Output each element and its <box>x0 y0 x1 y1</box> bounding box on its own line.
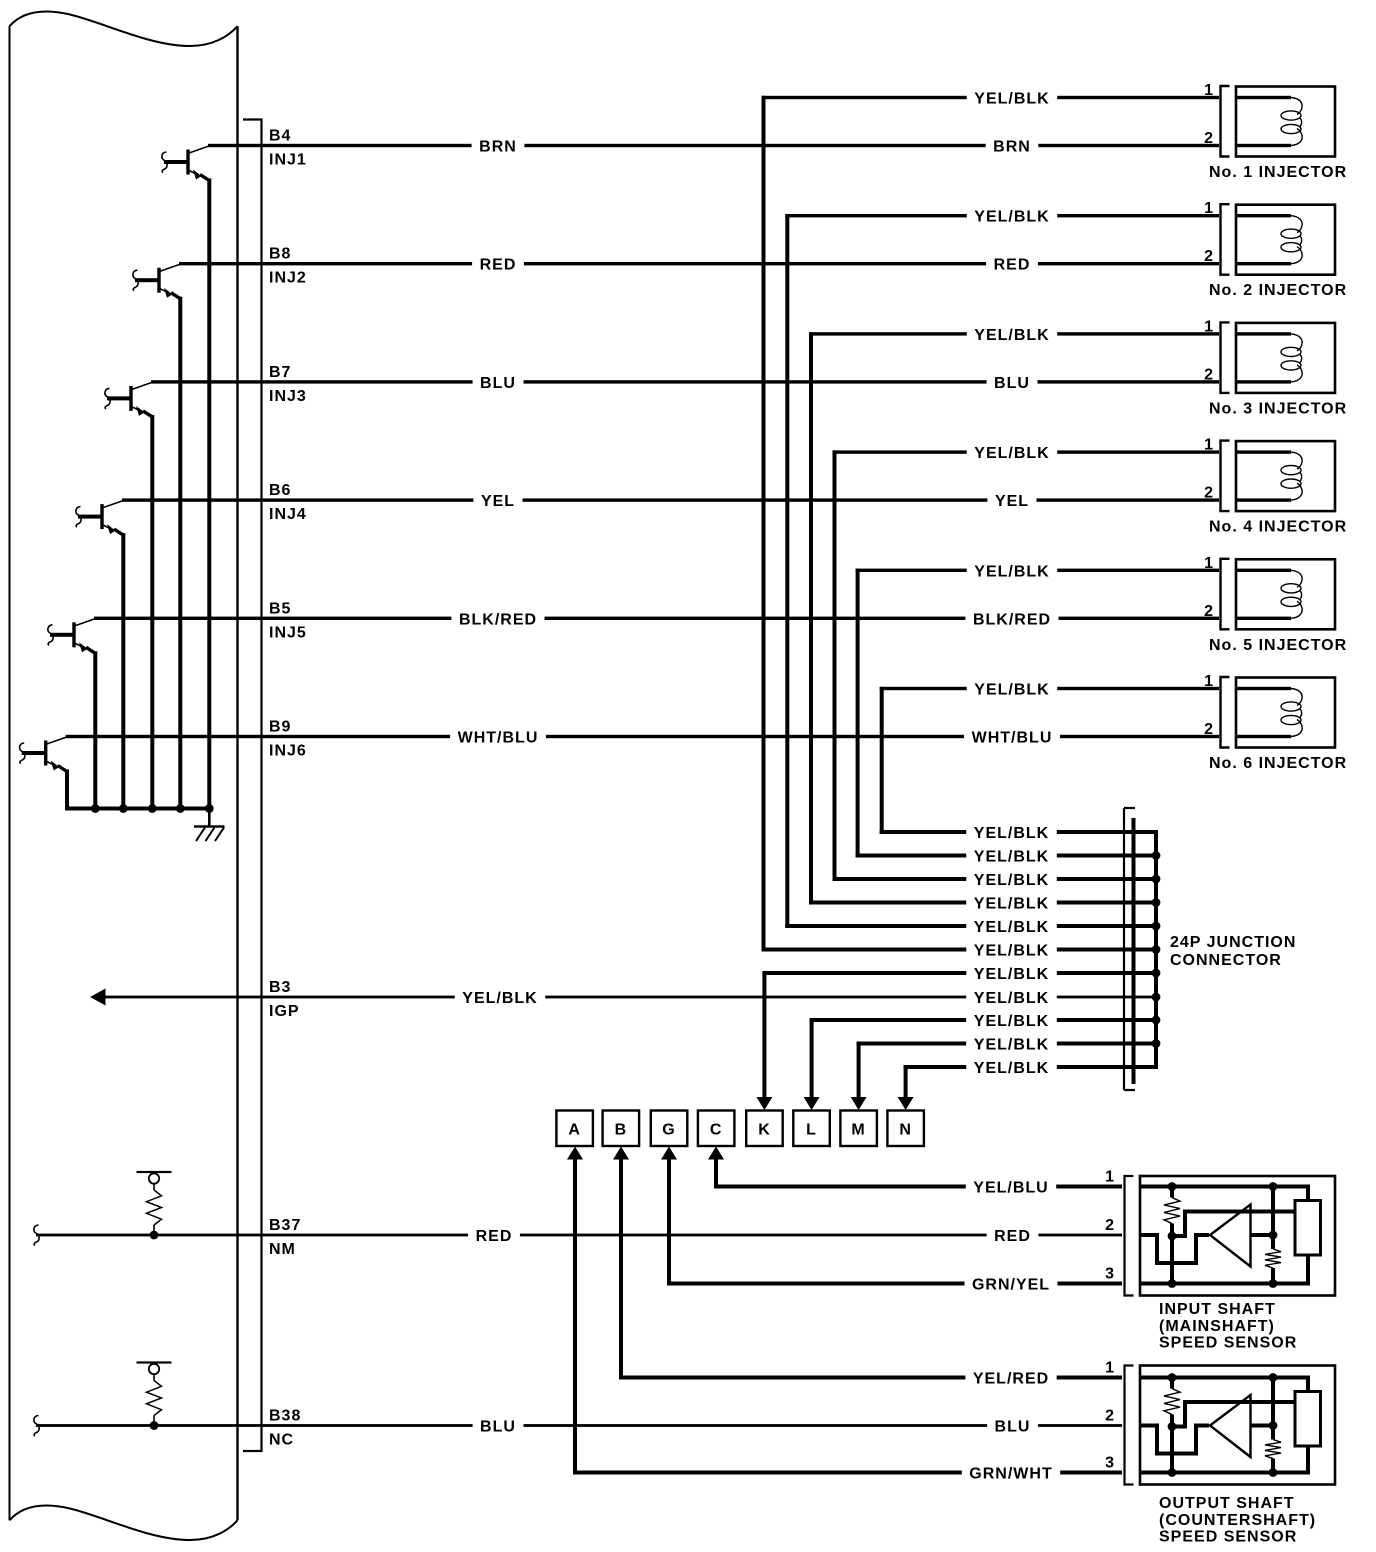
svg-text:M: M <box>851 1122 865 1139</box>
junction dot on 24P bus <box>1152 851 1161 860</box>
svg-text:B4: B4 <box>269 128 291 145</box>
wire BRN: ECM INJ1 to No.1 injector pin 2 <box>208 144 472 147</box>
svg-text:IGP: IGP <box>269 1003 300 1020</box>
left resistor branch <box>1170 1378 1174 1389</box>
wire break squiggle at Q1 base <box>162 152 167 173</box>
wire YEL/BLK: 24P junction connector row 5 <box>785 924 966 928</box>
junction dot on 24P bus <box>1152 922 1161 931</box>
pull-up resistor and supply at B37/NM <box>137 1171 172 1173</box>
sensing element resistor <box>1295 1201 1321 1256</box>
junction dot on 24P bus <box>1152 1039 1161 1048</box>
svg-text:RED: RED <box>476 1228 513 1245</box>
wire GRN/WHT: box A to output shaft speed sensor pin 3 <box>573 1471 962 1475</box>
injector coil box: No. 5 INJECTOR <box>1236 559 1335 629</box>
svg-text:1: 1 <box>1105 1360 1115 1377</box>
svg-text:YEL/BLK: YEL/BLK <box>974 919 1049 936</box>
svg-text:B3: B3 <box>269 979 291 996</box>
connector code box A <box>556 1111 593 1147</box>
connector code box M <box>840 1111 877 1147</box>
svg-text:L: L <box>806 1122 817 1139</box>
feedback wire over amp <box>1172 1212 1295 1237</box>
svg-text:WHT/BLU: WHT/BLU <box>458 730 539 747</box>
wire YEL/RED: box B to output shaft speed sensor pin 1 <box>619 1376 965 1380</box>
wire BLU: ECM B38 to output shaft speed sensor pin 2 <box>36 1424 473 1427</box>
wire YEL/BLK: 24P junction connector row 9 <box>810 1018 967 1022</box>
wire break squiggle at B37 wire left end <box>34 1225 39 1246</box>
right vertical to sensing element <box>1306 1378 1310 1392</box>
svg-text:YEL/BLK: YEL/BLK <box>974 896 1049 913</box>
feedback wire over amp <box>1172 1402 1295 1427</box>
svg-text:1: 1 <box>1204 555 1214 572</box>
svg-text:2: 2 <box>1204 603 1214 620</box>
transistor Q4 (injector driver INJ4) <box>78 515 102 519</box>
transistor Q2 (injector driver INJ2) <box>135 278 159 282</box>
connector bracket at No.4 injector <box>1221 441 1230 512</box>
svg-text:B8: B8 <box>269 246 291 263</box>
wire: vertical from injector 4 YEL/BLK down to junction row 3 <box>833 450 837 881</box>
svg-text:1: 1 <box>1204 437 1214 454</box>
junction dot at B37/NM <box>150 1231 159 1240</box>
junction dot on 24P bus <box>1152 898 1161 907</box>
svg-text:A: A <box>568 1122 581 1139</box>
junction dot on 24P bus <box>1152 1016 1161 1025</box>
svg-text:YEL: YEL <box>995 493 1029 510</box>
wire: vertical from injector 1 YEL/BLK down to junction row 6 <box>762 96 766 952</box>
svg-text:YEL/BLK: YEL/BLK <box>974 209 1049 226</box>
svg-text:OUTPUT SHAFT: OUTPUT SHAFT <box>1159 1495 1295 1512</box>
wire BLK/RED: ECM INJ5 to No.5 injector pin 2 <box>94 617 451 620</box>
svg-text:BLU: BLU <box>480 1419 516 1436</box>
svg-text:YEL/BLK: YEL/BLK <box>974 1037 1049 1054</box>
injector coil box: No. 6 INJECTOR <box>1236 678 1335 748</box>
arrowhead into box K <box>756 1097 772 1110</box>
wire YEL/BLK: No.6 injector pin 1 <box>880 687 967 690</box>
svg-text:INJ2: INJ2 <box>269 270 307 287</box>
wire YEL/BLK: 24P junction connector row 4 <box>809 901 966 905</box>
ground rail wire <box>65 807 211 811</box>
arrowhead into box G <box>661 1147 677 1160</box>
24P junction connector bus <box>1154 830 1158 1069</box>
transistor Q6 (injector driver INJ6) <box>22 751 46 755</box>
connector code box B <box>603 1111 640 1147</box>
wire BLU: ECM INJ3 to No.3 injector pin 2 <box>151 380 473 383</box>
svg-text:2: 2 <box>1204 366 1214 383</box>
amp output wire <box>1251 1424 1274 1428</box>
wire YEL/BLK: No.1 injector pin 1 <box>762 96 967 99</box>
connector code box G <box>651 1111 688 1147</box>
transistor Q5 (injector driver INJ5) <box>50 633 74 637</box>
junction dot on ground rail <box>205 804 214 813</box>
junction dot on ground rail <box>148 804 157 813</box>
junction dot <box>1168 1182 1177 1191</box>
junction dot <box>1168 1232 1177 1241</box>
wire YEL/BLK: No.2 injector pin 1 <box>785 214 967 217</box>
svg-text:No. 6 INJECTOR: No. 6 INJECTOR <box>1209 755 1347 772</box>
arrowhead into box C <box>708 1147 724 1160</box>
wire: Q5 emitter to ground rail <box>86 647 95 653</box>
arrowhead into box M <box>851 1097 867 1110</box>
connector bracket at No.2 injector <box>1221 204 1230 275</box>
svg-text:NM: NM <box>269 1241 296 1258</box>
junction dot on 24P bus <box>1152 945 1161 954</box>
svg-text:2: 2 <box>1105 1217 1115 1234</box>
svg-text:INJ4: INJ4 <box>269 506 307 523</box>
junction dot on 24P bus <box>1152 969 1161 978</box>
svg-text:No. 3 INJECTOR: No. 3 INJECTOR <box>1209 400 1347 417</box>
svg-text:YEL/BLK: YEL/BLK <box>974 943 1049 960</box>
wire break squiggle at Q6 base <box>20 743 25 764</box>
svg-text:B38: B38 <box>269 1408 301 1425</box>
svg-text:BLU: BLU <box>995 1419 1031 1436</box>
wire: sensor wire up to box G <box>667 1158 671 1286</box>
INPUT SHAFT (MAINSHAFT) SPEED SENSOR box <box>1140 1176 1335 1296</box>
svg-text:INJ5: INJ5 <box>269 624 307 641</box>
wire break squiggle at Q3 base <box>105 388 110 409</box>
wire break squiggle at B38 wire left end <box>34 1416 39 1437</box>
connector bracket at No.3 injector <box>1221 322 1230 393</box>
svg-text:2: 2 <box>1204 485 1214 502</box>
wire RED: ECM B37 to input shaft speed sensor pin 2 <box>36 1234 468 1237</box>
svg-text:B5: B5 <box>269 600 291 617</box>
junction dot <box>1269 1182 1278 1191</box>
svg-text:No. 1 INJECTOR: No. 1 INJECTOR <box>1209 164 1347 181</box>
svg-text:YEL/BLK: YEL/BLK <box>974 445 1049 462</box>
pin-2 input step wire <box>1140 1235 1209 1263</box>
junction dot <box>1269 1279 1278 1288</box>
connector bracket at No.5 injector <box>1221 559 1230 630</box>
right vertical to sensing element <box>1306 1187 1310 1201</box>
wire YEL/BLK: 24P junction connector row 1 <box>880 830 967 834</box>
svg-text:BRN: BRN <box>993 139 1031 156</box>
svg-text:RED: RED <box>994 257 1031 274</box>
top rail (pin 1) <box>1140 1185 1310 1189</box>
wire: Q3 emitter to ground rail <box>143 411 152 417</box>
connector bracket at No.6 injector <box>1221 677 1230 748</box>
svg-text:N: N <box>899 1122 912 1139</box>
svg-text:YEL/BLK: YEL/BLK <box>974 990 1049 1007</box>
wire: junction row down to box N <box>904 1065 908 1097</box>
svg-text:K: K <box>758 1122 771 1139</box>
ECM strip bottom torn edge <box>10 1505 238 1540</box>
junction dot <box>1168 1422 1177 1431</box>
svg-text:24P JUNCTION: 24P JUNCTION <box>1170 934 1296 951</box>
wire YEL/BLK: 24P junction connector row 7 <box>762 971 966 975</box>
arrow: B3 IGP wire continues left <box>90 989 106 1006</box>
svg-text:1: 1 <box>1204 318 1214 335</box>
svg-text:BLK/RED: BLK/RED <box>459 611 537 628</box>
left resistor branch <box>1170 1187 1174 1198</box>
svg-text:YEL/BLK: YEL/BLK <box>974 327 1049 344</box>
svg-text:SPEED SENSOR: SPEED SENSOR <box>1159 1335 1297 1352</box>
svg-text:2: 2 <box>1204 721 1214 738</box>
junction dot <box>1269 1373 1278 1382</box>
svg-text:YEL/BLK: YEL/BLK <box>974 825 1049 842</box>
svg-text:RED: RED <box>480 257 517 274</box>
junction dot <box>1168 1468 1177 1477</box>
pin-2 input step wire <box>1140 1426 1209 1454</box>
svg-text:C: C <box>710 1122 723 1139</box>
wire: vertical from injector 3 YEL/BLK down to junction row 4 <box>809 332 813 904</box>
svg-text:SPEED SENSOR: SPEED SENSOR <box>1159 1529 1297 1546</box>
wire break squiggle at Q4 base <box>76 507 81 527</box>
wire: Q4 emitter to ground rail <box>114 529 123 535</box>
svg-text:1: 1 <box>1204 200 1214 217</box>
wire: Q2 emitter to ground rail <box>171 293 180 299</box>
wire YEL/BLK: No.5 injector pin 1 <box>856 569 967 572</box>
wire: junction row down to box L <box>810 1018 814 1097</box>
wire WHT/BLU: ECM INJ6 to No.6 injector pin 2 <box>66 735 450 738</box>
svg-text:YEL: YEL <box>481 493 515 510</box>
wire YEL: ECM INJ4 to No.4 injector pin 2 <box>122 498 473 501</box>
svg-text:BLU: BLU <box>480 375 516 392</box>
junction dot <box>1168 1373 1177 1382</box>
junction dot <box>1269 1468 1278 1477</box>
junction dot on 24P bus <box>1152 993 1161 1002</box>
svg-text:2: 2 <box>1204 130 1214 147</box>
svg-text:RED: RED <box>994 1228 1031 1245</box>
svg-text:No. 4 INJECTOR: No. 4 INJECTOR <box>1209 519 1347 536</box>
connector bracket at No.1 injector <box>1221 86 1230 157</box>
connector code box C <box>698 1111 735 1147</box>
svg-text:INJ3: INJ3 <box>269 388 307 405</box>
wire YEL/BLU: box C to input shaft speed sensor pin 1 <box>714 1185 966 1189</box>
wire: Q6 emitter to ground rail <box>58 766 67 772</box>
right resistor branch <box>1271 1187 1275 1250</box>
svg-text:CONNECTOR: CONNECTOR <box>1170 952 1282 969</box>
arrowhead into box A <box>567 1147 583 1160</box>
wire: sensor wire up to box A <box>573 1158 577 1475</box>
svg-text:No. 5 INJECTOR: No. 5 INJECTOR <box>1209 637 1347 654</box>
injector coil box: No. 1 INJECTOR <box>1236 87 1335 157</box>
op-amp triangle <box>1210 1395 1251 1457</box>
connector code box K <box>746 1111 783 1147</box>
wire: vertical from injector 6 YEL/BLK down to junction row 1 <box>880 687 884 834</box>
svg-text:YEL/BLK: YEL/BLK <box>974 849 1049 866</box>
wire break squiggle at Q5 base <box>48 625 53 646</box>
junction dot <box>1168 1279 1177 1288</box>
wire RED: ECM INJ2 to No.2 injector pin 2 <box>179 262 472 265</box>
wire YEL/BLK: 24P junction connector row 6 <box>762 948 967 952</box>
svg-text:YEL/BLK: YEL/BLK <box>974 1060 1049 1077</box>
svg-text:GRN/WHT: GRN/WHT <box>969 1466 1052 1483</box>
svg-text:WHT/BLU: WHT/BLU <box>972 730 1053 747</box>
wire break squiggle at Q2 base <box>133 270 138 291</box>
ECM strip right edge <box>236 26 238 1520</box>
svg-text:INJ1: INJ1 <box>269 152 307 169</box>
svg-text:(COUNTERSHAFT): (COUNTERSHAFT) <box>1159 1512 1316 1529</box>
svg-text:1: 1 <box>1105 1169 1115 1186</box>
svg-text:B9: B9 <box>269 719 291 736</box>
transistor Q3 (injector driver INJ3) <box>107 396 131 400</box>
injector coil box: No. 2 INJECTOR <box>1236 205 1335 275</box>
wire YEL/BLK: No.3 injector pin 1 <box>809 332 967 335</box>
bottom rail (pin 3) <box>1140 1282 1310 1286</box>
svg-text:No. 2 INJECTOR: No. 2 INJECTOR <box>1209 282 1347 299</box>
connector code box N <box>887 1111 924 1147</box>
24P junction connector bar <box>1132 818 1136 1084</box>
OUTPUT SHAFT (COUNTERSHAFT) SPEED SENSOR box <box>1140 1366 1335 1485</box>
junction dot at B38/NC <box>150 1421 159 1430</box>
svg-text:YEL/BLK: YEL/BLK <box>974 682 1049 699</box>
svg-text:YEL/BLK: YEL/BLK <box>974 966 1049 983</box>
svg-text:BLU: BLU <box>994 375 1030 392</box>
ECM connector bracket <box>243 120 262 1452</box>
arrowhead into box N <box>898 1097 914 1110</box>
connector bracket at INPUT SHAFT (MAINSHAFT) SPEED SENSOR <box>1125 1176 1134 1296</box>
svg-text:B7: B7 <box>269 364 291 381</box>
ground symbol <box>194 825 225 827</box>
wire: junction row down to box M <box>857 1042 861 1098</box>
ECM strip top torn edge <box>10 11 238 46</box>
svg-text:INPUT SHAFT: INPUT SHAFT <box>1159 1301 1276 1318</box>
bottom rail (pin 3) <box>1140 1471 1310 1475</box>
transistor Q1 (injector driver INJ1) <box>164 160 188 164</box>
svg-text:(MAINSHAFT): (MAINSHAFT) <box>1159 1318 1275 1335</box>
amp output wire <box>1251 1233 1274 1237</box>
svg-text:1: 1 <box>1204 82 1214 99</box>
wire YEL/BLK: 24P junction connector row 3 <box>833 877 967 881</box>
junction dot on 24P bus <box>1152 875 1161 884</box>
junction dot on ground rail <box>119 804 128 813</box>
svg-text:YEL/BLK: YEL/BLK <box>974 91 1049 108</box>
wire GRN/YEL: box G to input shaft speed sensor pin 3 <box>667 1282 965 1286</box>
arrowhead into box B <box>613 1147 629 1160</box>
svg-text:BRN: BRN <box>479 139 517 156</box>
sensing element resistor <box>1295 1392 1321 1447</box>
junction dot on ground rail <box>176 804 185 813</box>
wire YEL/BLK: 24P junction connector row 11 <box>904 1065 967 1069</box>
svg-text:YEL/BLK: YEL/BLK <box>974 563 1049 580</box>
junction dot <box>1269 1231 1278 1240</box>
arrowhead into box L <box>804 1097 820 1110</box>
wire: Q1 emitter to ground rail <box>200 175 209 181</box>
svg-text:G: G <box>662 1122 675 1139</box>
wire YEL/BLK: 24P junction connector row 10 <box>857 1042 967 1046</box>
svg-text:3: 3 <box>1105 1455 1115 1472</box>
svg-text:INJ6: INJ6 <box>269 743 307 760</box>
wire: sensor wire up to box C <box>714 1158 718 1189</box>
svg-text:YEL/BLK: YEL/BLK <box>462 990 537 1007</box>
injector coil box: No. 4 INJECTOR <box>1236 441 1335 511</box>
svg-text:B: B <box>615 1122 628 1139</box>
svg-text:B37: B37 <box>269 1217 301 1234</box>
ground symbol stem <box>208 809 211 827</box>
svg-text:NC: NC <box>269 1432 294 1449</box>
svg-text:YEL/RED: YEL/RED <box>973 1371 1049 1388</box>
injector coil box: No. 3 INJECTOR <box>1236 323 1335 393</box>
right resistor branch <box>1271 1378 1275 1440</box>
junction dot <box>1269 1421 1278 1430</box>
24P junction connector bracket <box>1124 808 1135 1090</box>
svg-text:3: 3 <box>1105 1266 1115 1283</box>
svg-text:2: 2 <box>1105 1408 1115 1425</box>
connector bracket at OUTPUT SHAFT (COUNTERSHAFT) SPEED SENSOR <box>1125 1366 1134 1485</box>
wire YEL/BLK: No.4 injector pin 1 <box>833 450 967 453</box>
ECM strip left edge <box>9 26 11 1520</box>
wire: vertical from injector 2 YEL/BLK down to junction row 5 <box>785 214 789 928</box>
wire: vertical from injector 5 YEL/BLK down to junction row 2 <box>856 569 860 858</box>
svg-text:GRN/YEL: GRN/YEL <box>972 1277 1050 1294</box>
pull-up resistor and supply at B38/NC <box>137 1361 172 1363</box>
svg-text:BLK/RED: BLK/RED <box>973 611 1051 628</box>
op-amp triangle <box>1210 1205 1251 1267</box>
svg-text:YEL/BLK: YEL/BLK <box>974 872 1049 889</box>
wire YEL/BLK: 24P junction connector row 8 <box>103 996 455 999</box>
svg-text:B6: B6 <box>269 482 291 499</box>
connector code box L <box>793 1111 830 1147</box>
wire: sensor wire up to box B <box>619 1158 623 1380</box>
svg-text:1: 1 <box>1204 673 1214 690</box>
junction dot on ground rail <box>91 804 100 813</box>
wire YEL/BLK: 24P junction connector row 2 <box>856 854 967 858</box>
top rail (pin 1) <box>1140 1376 1310 1380</box>
svg-text:YEL/BLK: YEL/BLK <box>974 1013 1049 1030</box>
svg-text:YEL/BLU: YEL/BLU <box>973 1180 1048 1197</box>
svg-text:2: 2 <box>1204 248 1214 265</box>
wire: junction row down to box K <box>762 971 766 1097</box>
